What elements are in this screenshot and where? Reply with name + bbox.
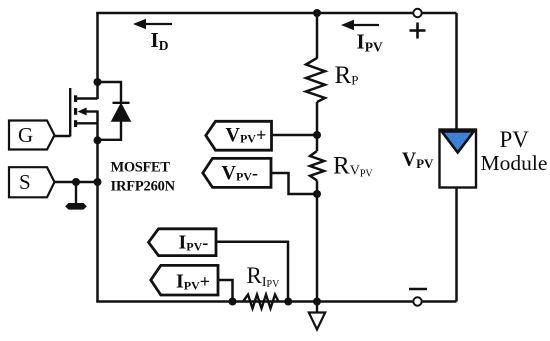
diode D1 (body diode) [98, 82, 130, 140]
node S/ground [72, 178, 80, 186]
channel bar bottom [74, 120, 77, 127]
arrow IPV [341, 20, 383, 55]
PV module body [440, 130, 477, 188]
wire drain contact [77, 97, 98, 99]
svg-text:G: G [18, 123, 33, 147]
wire bottom [96, 300, 456, 303]
wire S lead [54, 181, 98, 183]
wire middle branch lower [316, 181, 319, 302]
node drain/diode [94, 78, 102, 86]
minus sign [409, 288, 427, 291]
svg-text:IRFP260N: IRFP260N [111, 179, 176, 195]
wire source contact [77, 122, 98, 124]
svg-text:Module: Module [481, 151, 548, 175]
tag G [9, 121, 55, 150]
node ground [313, 298, 321, 306]
resistor RP [306, 58, 325, 102]
svg-text:S: S [19, 170, 31, 194]
wire RP to node [316, 102, 319, 151]
resistor RVpv [310, 151, 324, 181]
wire right lower [455, 188, 458, 302]
node source/diode [94, 136, 102, 144]
tag IPV- [149, 229, 217, 256]
wire right upper [455, 13, 458, 130]
tag VPV- [203, 158, 271, 187]
ground (output) stub [316, 302, 318, 313]
wire VPV- lead [271, 173, 317, 194]
PV module triangle [442, 132, 474, 153]
channel bar middle [74, 108, 77, 115]
wire diode bottom [98, 121, 122, 140]
svg-text:PV: PV [500, 127, 530, 152]
node VPV+ [313, 131, 321, 139]
terminal + (open circle) [413, 9, 421, 17]
wire left lower (source to bottom) [96, 111, 99, 302]
node S/main [94, 178, 102, 186]
ground (source) bar [65, 203, 87, 210]
resistor RIpv [243, 295, 279, 309]
transistor Q1 MOSFET IRFP260N [54, 88, 98, 137]
wire VPV+ lead [272, 134, 318, 137]
ground (source) stub [75, 182, 77, 203]
wire left upper (drain feed) [96, 13, 99, 99]
wire middle branch upper [316, 13, 319, 59]
wire body contact [85, 110, 98, 112]
tag VPV+ [206, 121, 272, 150]
body arrow of Q1 [78, 108, 87, 116]
ground (output) triangle [309, 313, 325, 330]
svg-text:MOSFET: MOSFET [111, 160, 171, 176]
node IPV+ [229, 298, 237, 306]
wire diode top [98, 82, 122, 103]
wire gate lead [54, 135, 71, 137]
wire IPV+ lead [218, 280, 233, 302]
tag S [9, 167, 55, 197]
wire IPV- lead [216, 242, 288, 302]
plus sign [410, 23, 426, 39]
terminal - (open circle) [413, 297, 421, 305]
channel bar top [74, 95, 77, 102]
arrow ID [133, 19, 172, 53]
wire top [96, 12, 456, 15]
gate bar [69, 88, 71, 137]
tag IPV+ [151, 265, 218, 295]
diode triangle [112, 104, 130, 121]
node top branch [313, 9, 321, 17]
diode cathode bar [113, 102, 130, 104]
node IPV- [284, 298, 292, 306]
node VPV- [313, 190, 321, 198]
